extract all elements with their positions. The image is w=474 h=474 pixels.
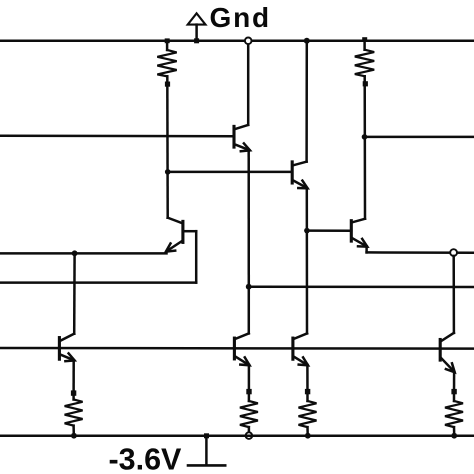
transistor Q7 (bottom, x=293) bbox=[293, 333, 308, 365]
junction dot under R2 bbox=[362, 134, 368, 140]
wire: input line A (left edge to Q1 base) bbox=[0, 135, 234, 138]
wire: Q3 base vertical down bbox=[195, 231, 198, 282]
ring junction on line E bbox=[450, 249, 457, 256]
resistor R1 (top left, x=167) bbox=[157, 38, 176, 86]
transistor Q8 (bottom right) bbox=[440, 333, 455, 372]
ring junction R4 / bottom rail bbox=[246, 432, 253, 439]
wire: line E (Q4 emitter to right edge) bbox=[367, 251, 474, 254]
wire: V4 (R2 bottom to Q4 collector) bbox=[363, 76, 366, 219]
wire: V3 upper (top rail to Q2 collector) bbox=[305, 41, 308, 162]
resistor R4 bbox=[240, 389, 258, 436]
wire: Q3 base lead right bbox=[184, 230, 197, 233]
junction dot V2 x line G bbox=[246, 284, 252, 290]
wire: Q8 emitter down bbox=[453, 372, 456, 401]
transistor Q2 (center, base on line C) bbox=[292, 162, 307, 189]
resistor R2 (top right, x=364.6) bbox=[355, 37, 374, 86]
wire: V2 lower (Q1 emitter down to Q6 collector) bbox=[247, 150, 250, 333]
junction dot R6 / bottom rail bbox=[451, 433, 457, 439]
wire: line D (left edge to Q3 emitter) bbox=[0, 252, 167, 255]
wire: line C (node C1 to Q2 base) bbox=[168, 171, 292, 174]
ground rail (top, Gnd) bbox=[0, 40, 474, 43]
wire: Q6 emitter down bbox=[248, 365, 251, 401]
junction square at Gnd stub bbox=[194, 38, 199, 43]
wire: V6 (line D down to Q5 collector) bbox=[73, 253, 76, 333]
transistor Q5 (bottom far left) bbox=[59, 334, 74, 362]
negative supply rail (bottom) bbox=[0, 434, 474, 437]
wire: line B (under R2 to right edge) bbox=[365, 136, 474, 139]
wire: base line H (full width) bbox=[0, 347, 474, 350]
resistor R3 (bottom left) bbox=[65, 390, 83, 435]
junction dot line D / V6 bbox=[72, 250, 78, 256]
transistor Q4 (right, base from V3) bbox=[351, 219, 367, 247]
Gnd arrow symbol bbox=[188, 13, 206, 24]
junction dot R5 / bottom rail bbox=[305, 433, 311, 439]
wire: Q4 emitter corner bbox=[365, 246, 368, 252]
resistor R6 bbox=[445, 389, 463, 436]
svg-text:-3.6V: -3.6V bbox=[109, 442, 183, 474]
resistor R5 bbox=[299, 389, 317, 436]
junction dot R3 / bottom rail bbox=[71, 433, 77, 439]
wire: Q5 emitter down bbox=[72, 360, 75, 399]
wire: V3 (Q2 emitter down to Q7 collector) bbox=[306, 188, 309, 333]
junction dot node C1 (167.8,171.9) bbox=[165, 169, 171, 175]
wire: V2 upper (top rail to Q1 collector) bbox=[247, 41, 250, 125]
wire: Q4 base from dot bbox=[307, 229, 351, 232]
transistor Q3 (left-facing, x=183) bbox=[166, 218, 183, 252]
junction dot at top rail x=307 bbox=[304, 38, 310, 44]
wire: line G (dot to right edge) bbox=[249, 285, 474, 288]
wire: V5 (ring down to Q8 collector) bbox=[452, 256, 455, 333]
ring junction at top rail x=248 bbox=[245, 38, 252, 45]
svg-text:Gnd: Gnd bbox=[210, 2, 271, 33]
wire: node V1 vertical (R1 bottom to Q3 collector) bbox=[166, 76, 169, 217]
wire: Q7 emitter down bbox=[306, 365, 309, 401]
junction dot V3 x Q4 base bbox=[304, 228, 310, 234]
transistor Q1 (center top) bbox=[234, 125, 250, 151]
wire: line F (x=0 to Q3 base vertical) bbox=[0, 281, 196, 284]
-3.6V supply symbol bbox=[188, 433, 225, 465]
wire: Gnd stub bbox=[195, 25, 198, 41]
transistor Q6 (bottom, x=234) bbox=[234, 333, 249, 365]
